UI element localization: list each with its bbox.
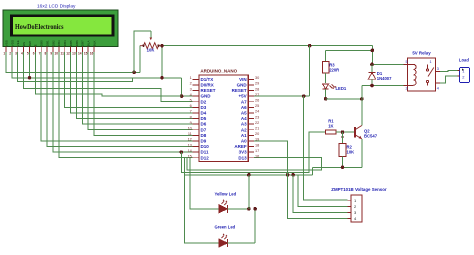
svg-text:5V Relay: 5V Relay (412, 51, 431, 56)
node junction collector/LED (360, 97, 364, 101)
wire R1 feed from D11 rail (181, 132, 325, 173)
svg-text:7: 7 (190, 110, 192, 114)
LCD pin 14 (DB7) stub (81, 47, 83, 53)
wire ground rail right (312, 166, 362, 168)
svg-text:1: 1 (3, 52, 5, 56)
svg-text:A3: A3 (241, 122, 247, 127)
svg-text:AREF: AREF (234, 144, 247, 149)
svg-text:A1: A1 (241, 133, 247, 138)
svg-text:26: 26 (255, 99, 259, 103)
svg-text:7: 7 (39, 52, 41, 56)
wire ground rail step (311, 167, 313, 175)
svg-text:10: 10 (188, 127, 192, 131)
svg-text:DB1: DB1 (45, 40, 49, 46)
svg-text:A2: A2 (241, 127, 247, 132)
svg-text:A7: A7 (241, 99, 247, 104)
node junction ZMPT pin3 riser (291, 173, 295, 177)
svg-text:RESET: RESET (232, 88, 247, 93)
nano right pin 25 A6 (248, 106, 254, 108)
svg-text:10K: 10K (347, 149, 355, 154)
svg-text:23: 23 (255, 115, 259, 119)
LCD pin 7 (DB0) stub (40, 47, 42, 53)
svg-text:1: 1 (430, 60, 432, 64)
svg-text:2: 2 (406, 87, 408, 91)
nano left pin 9 D6 (193, 123, 199, 125)
nano right pin 17 3V3 (248, 151, 254, 153)
svg-text:6: 6 (190, 104, 192, 108)
wire LCD pin4 to nano D2 with jog (24, 52, 193, 102)
nano right pin 21 A2 (248, 129, 254, 131)
svg-text:13: 13 (188, 143, 192, 147)
svg-text:16: 16 (90, 52, 94, 56)
wire LED1 cathode down (325, 89, 327, 99)
load pin 2 (458, 75, 460, 77)
svg-text:HowDoElectronics: HowDoElectronics (15, 22, 64, 31)
op-amp U1 ARDUINO_NANO module (199, 75, 248, 162)
wire ZMPT pin2 riser (298, 175, 347, 206)
svg-text:RESET: RESET (201, 88, 216, 93)
wire LCD pin12 to nano D4 (71, 52, 193, 113)
svg-text:3V3: 3V3 (239, 150, 248, 155)
svg-text:3: 3 (15, 52, 17, 56)
svg-text:DB6: DB6 (75, 40, 79, 46)
load connector J1 (460, 68, 470, 83)
svg-text:15: 15 (84, 52, 88, 56)
svg-text:1: 1 (190, 76, 192, 80)
nano right pin 22 A3 (248, 123, 254, 125)
wire LCD pin11 to nano D3 (65, 52, 193, 107)
svg-text:19: 19 (255, 138, 259, 142)
svg-text:DB3: DB3 (57, 40, 61, 46)
node junction LED1 cathode (324, 97, 328, 101)
svg-text:12: 12 (66, 52, 70, 56)
wire +5V row riser to nano (182, 78, 193, 96)
nano left pin 4 GND (193, 95, 199, 97)
svg-text:A5: A5 (241, 111, 247, 116)
wire +5V rail drop to relay/D1 (371, 46, 373, 65)
wire R3 top feed (326, 49, 373, 51)
svg-text:29: 29 (255, 82, 259, 86)
relay RL1 5V Relay (408, 58, 436, 91)
LCD pin 10 (DB3) stub (58, 47, 60, 53)
node junction green riser / yellow row (253, 207, 257, 211)
wire pot right end drop to +5V row (161, 46, 163, 78)
svg-text:D5: D5 (201, 116, 207, 121)
svg-text:10K: 10K (147, 48, 155, 53)
LCD pin 3 (VEE) stub (17, 47, 19, 53)
svg-text:Load: Load (459, 58, 469, 63)
svg-text:E: E (34, 44, 38, 46)
nano right pin 30 VIN (248, 78, 254, 80)
wire yellow cathode riser to ground (248, 175, 250, 209)
svg-text:GND: GND (201, 94, 212, 99)
LED LED1 (323, 84, 329, 89)
svg-text:12: 12 (188, 138, 192, 142)
LCD module LCD1 16x2 display (3, 10, 118, 47)
svg-text:13: 13 (72, 52, 76, 56)
wire LCD pin15 to nano D7 (88, 52, 193, 130)
load pin 1 (458, 69, 460, 71)
nano left pin 2 D0/RX (193, 84, 199, 86)
svg-text:27: 27 (255, 93, 259, 97)
svg-text:RW: RW (28, 41, 32, 46)
nano left pin 11 D8 (193, 134, 199, 136)
svg-text:BLA: BLA (87, 41, 91, 47)
node junction D1 anode (370, 84, 374, 88)
relay switch common (427, 64, 429, 68)
svg-text:10: 10 (54, 52, 58, 56)
svg-text:9: 9 (50, 52, 52, 56)
node junction pot wiper / V0 (132, 71, 136, 75)
svg-text:20: 20 (255, 132, 259, 136)
nano left pin 5 D2 (193, 101, 199, 103)
wire LCD pin5 joins +5V row (28, 52, 30, 78)
svg-text:D6: D6 (201, 122, 207, 127)
svg-text:A0: A0 (241, 139, 247, 144)
nano left pin 1 D1/TX (193, 78, 199, 80)
svg-text:5: 5 (190, 99, 192, 103)
wire +5V top rail (162, 45, 372, 47)
relay coil (403, 63, 413, 65)
wire LCD pin2 +5V row (12, 52, 182, 78)
node junction +5V rail / nano +5V riser (308, 44, 312, 48)
svg-text:16x2 LCD Display: 16x2 LCD Display (37, 4, 76, 10)
nano right pin 24 A5 (248, 112, 254, 114)
node junction R2 bottom (341, 166, 345, 170)
node junction +5V / ZMPT VCC drop (302, 94, 306, 98)
nano right pin 28 RESET (248, 90, 254, 92)
wire LED1 to collector node (326, 98, 362, 100)
wire ZMPT pin1 VCC feed (304, 96, 348, 200)
svg-text:D2: D2 (201, 99, 207, 104)
svg-text:Green Led: Green Led (215, 225, 236, 230)
wire R1 to Q2 base (336, 131, 355, 133)
svg-text:D9: D9 (201, 139, 207, 144)
wire LCD pin10 to nano D12 (59, 52, 193, 158)
svg-text:VDD: VDD (10, 39, 14, 46)
ZMPT pin 1 (348, 199, 351, 201)
svg-text:DB4: DB4 (63, 40, 67, 46)
diode D1 1N4007 (371, 64, 373, 72)
svg-text:3: 3 (437, 67, 439, 71)
nano left pin 7 D4 (193, 112, 199, 114)
relay switch blade (428, 68, 434, 77)
wire pot wiper loop (134, 31, 151, 73)
svg-text:D0/RX: D0/RX (201, 83, 214, 88)
svg-text:11: 11 (188, 132, 192, 136)
wire Q2 emitter to ground rail (361, 139, 363, 167)
svg-text:3: 3 (190, 87, 192, 91)
svg-text:D3: D3 (201, 105, 207, 110)
nano right pin 26 A7 (248, 101, 254, 103)
node junction D1 cathode / coil top (370, 63, 374, 67)
svg-text:15: 15 (188, 155, 192, 159)
svg-text:14: 14 (78, 52, 82, 56)
svg-text:RS: RS (22, 42, 26, 46)
wire LCD pin13 to nano D5 (76, 52, 192, 119)
node junction pot right/+5V row (160, 76, 164, 80)
svg-text:16: 16 (255, 155, 259, 159)
nano right pin 27 +5V (248, 95, 254, 97)
wire yellow LED cathode (228, 208, 249, 210)
potentiometer RV1 10K (LCD contrast) (140, 43, 162, 49)
svg-text:ZMPT101B Voltage Sensor: ZMPT101B Voltage Sensor (331, 187, 387, 192)
svg-text:DB5: DB5 (69, 40, 73, 46)
wire relay NO to load pin1 (440, 69, 458, 72)
nano left pin 13 D10 (193, 146, 199, 148)
wire LCD pin8 to nano D10 (47, 52, 193, 147)
wire relay coil top feed (372, 63, 403, 65)
svg-text:5: 5 (406, 60, 408, 64)
svg-text:Yellow Led: Yellow Led (215, 192, 237, 197)
svg-text:VSS: VSS (4, 40, 8, 46)
resistor R1 1K (326, 130, 336, 134)
svg-text:30: 30 (255, 76, 259, 80)
svg-text:ARDUINO_NANO: ARDUINO_NANO (200, 69, 237, 74)
LCD pin 5 (RW) stub (28, 47, 30, 53)
svg-text:VEE: VEE (16, 40, 20, 46)
svg-text:4: 4 (21, 52, 23, 56)
resistor R3 220R (325, 50, 327, 61)
wire green cathode riser (254, 209, 256, 243)
svg-text:6: 6 (33, 52, 35, 56)
node junction pin5/+5V row (28, 76, 32, 80)
nano right pin 29 GND (248, 84, 254, 86)
svg-text:VIN: VIN (239, 77, 247, 82)
svg-text:8: 8 (45, 52, 47, 56)
wire green LED feed (184, 158, 218, 243)
wire LCD pin14 to nano D6 (82, 52, 192, 124)
svg-text:4: 4 (437, 87, 439, 91)
svg-text:D12: D12 (201, 155, 210, 160)
svg-text:14: 14 (188, 149, 192, 153)
svg-text:2: 2 (9, 52, 11, 56)
LCD pin 8 (DB1) stub (46, 47, 48, 53)
svg-text:D13: D13 (238, 155, 247, 160)
wire relay common to load pin2 (440, 76, 458, 83)
svg-text:A4: A4 (241, 116, 247, 121)
svg-text:21: 21 (255, 127, 259, 131)
LCD pin 1 (VSS) stub (5, 47, 7, 53)
wire LCD pin6 to nano GND row with jog (35, 52, 181, 96)
nano left pin 6 D3 (193, 106, 199, 108)
svg-text:28: 28 (255, 87, 259, 91)
svg-text:24: 24 (255, 110, 259, 114)
svg-text:17: 17 (255, 149, 259, 153)
svg-text:DB7: DB7 (81, 40, 85, 46)
nano left pin 12 D9 (193, 140, 199, 142)
LCD pin 13 (DB6) stub (75, 47, 77, 53)
node junction pot right end (160, 44, 164, 48)
wire ground rail left (184, 174, 312, 176)
wire nano +5V pin to riser (254, 95, 310, 97)
wire coil bottom / D1 anode row (362, 85, 404, 87)
svg-text:LED1: LED1 (336, 86, 347, 91)
svg-text:220R: 220R (329, 67, 339, 72)
resistor R2 10K (342, 132, 344, 143)
node junction riser/GND row (180, 94, 184, 98)
svg-text:1K: 1K (328, 123, 333, 128)
nano left pin 15 D12 (193, 157, 199, 159)
svg-text:D11: D11 (201, 150, 210, 155)
LCD pin 4 (RS) stub (23, 47, 25, 53)
wire LCD pin3 joins +5V row via jog (18, 52, 133, 82)
LCD pin 2 (VDD) stub (11, 47, 13, 53)
node junction yellow LED cathode riser (247, 173, 251, 177)
transistor Q2 BC547 NPN (354, 127, 356, 137)
node junction R1/R2/base (341, 130, 345, 134)
svg-text:4: 4 (190, 93, 192, 97)
LCD pin 15 (BLA) stub (87, 47, 89, 53)
nano right pin 16 D13 (248, 157, 254, 159)
wire LCD pin16 to nano D8 (94, 52, 193, 135)
LCD pin 16 (BLK) stub (93, 47, 95, 53)
wire green LED cathode (228, 242, 256, 244)
svg-text:+5V: +5V (238, 94, 246, 99)
wire LCD pin1 to contrast pot (net V0) (6, 52, 140, 72)
nano left pin 3 RESET (193, 90, 199, 92)
svg-text:25: 25 (255, 104, 259, 108)
pot wiper arrow (150, 38, 153, 41)
svg-text:GND: GND (237, 83, 248, 88)
nano left pin 10 D7 (193, 129, 199, 131)
LCD pin 12 (DB5) stub (70, 47, 72, 53)
svg-text:D10: D10 (201, 144, 210, 149)
svg-text:D8: D8 (201, 133, 207, 138)
node junction R3 feed (371, 49, 375, 53)
nano right pin 20 A1 (248, 134, 254, 136)
wire pot left end down (139, 46, 141, 73)
node junction D11 row / R1 feed (180, 150, 184, 154)
ZMPT pin 2 (348, 205, 351, 207)
node junction ZMPT pin4 riser / A0 (286, 173, 290, 177)
wire yellow LED feed (190, 158, 219, 209)
svg-text:DB2: DB2 (51, 40, 55, 46)
svg-text:11: 11 (61, 52, 65, 56)
svg-text:8: 8 (190, 115, 192, 119)
svg-text:DB0: DB0 (40, 40, 44, 46)
svg-text:BC547: BC547 (364, 133, 378, 138)
nano right pin 18 AREF (248, 146, 254, 148)
svg-text:BLK: BLK (92, 41, 96, 47)
svg-text:A6: A6 (241, 105, 247, 110)
LCD pin 6 (E) stub (34, 47, 36, 53)
ZMPT pin 4 (348, 217, 351, 219)
node junction yellow cathode (247, 207, 251, 211)
svg-text:D1/TX: D1/TX (201, 77, 214, 82)
svg-text:2: 2 (190, 82, 192, 86)
wire nano D13 underpass rail (187, 158, 322, 170)
svg-text:D7: D7 (201, 127, 207, 132)
LCD pin 11 (DB4) stub (64, 47, 66, 53)
nano left pin 14 D11 (193, 151, 199, 153)
nano right pin 23 A4 (248, 118, 254, 120)
svg-text:1N4007: 1N4007 (377, 76, 392, 81)
nano left pin 8 D5 (193, 118, 199, 120)
svg-text:D4: D4 (201, 111, 207, 116)
svg-text:18: 18 (255, 143, 259, 147)
wire LCD pin9 to nano D11 (53, 52, 193, 152)
relay contact stubs (436, 70, 440, 72)
wire nano A0 to ZMPT pin4 (254, 141, 348, 219)
wire ZMPT pin3 riser (293, 175, 348, 213)
wire LCD pin7 to nano D9 (41, 52, 192, 141)
LCD pin 9 (DB2) stub (52, 47, 54, 53)
ZMPT pin 3 (348, 211, 351, 213)
svg-text:22: 22 (255, 121, 259, 125)
nano right pin 19 A0 (248, 140, 254, 142)
svg-text:9: 9 (190, 121, 192, 125)
svg-text:5: 5 (27, 52, 29, 56)
wire collector riser (361, 86, 363, 99)
